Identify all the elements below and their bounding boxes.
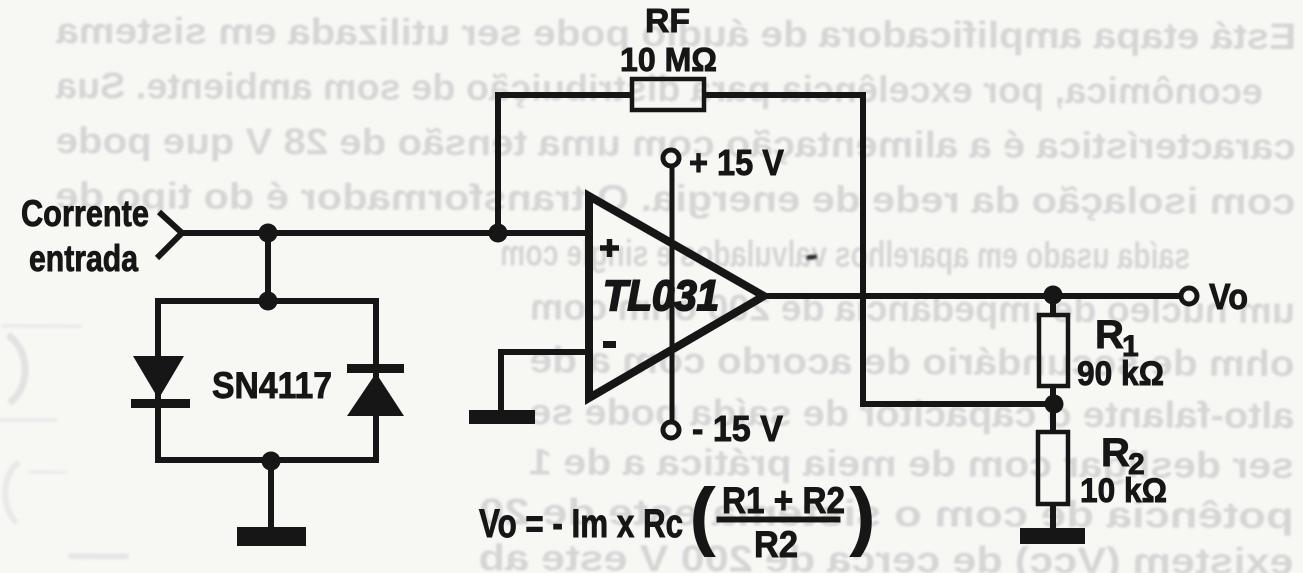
- wire inverting input: [501, 352, 589, 412]
- svg-text:(: (: [690, 473, 715, 557]
- svg-text:Vo = - Im x Rc: Vo = - Im x Rc: [479, 502, 683, 546]
- svg-text:ser desligar com de meia práti: ser desligar com de meia prática a de 1: [529, 441, 1294, 486]
- label R2: [1101, 431, 1145, 481]
- svg-text:RF: RF: [645, 2, 690, 39]
- wire R2 to ground: [1050, 504, 1056, 531]
- wire diode network to ground: [268, 461, 274, 530]
- label Corrente entrada: [21, 193, 149, 279]
- svg-text:alto-falante o capacitor de sa: alto-falante o capacitor de saída pode s…: [529, 391, 1294, 436]
- svg-text:SN4117: SN4117: [212, 365, 332, 406]
- label R1: [1095, 313, 1139, 363]
- junction output node: [1044, 286, 1063, 305]
- terminal Vo: [1181, 288, 1197, 304]
- svg-text:R1 + R2: R1 + R2: [722, 480, 845, 521]
- wire feedback left vertical: [495, 92, 501, 233]
- junction input node: [259, 224, 278, 243]
- svg-text:com isolação da rede de energi: com isolação da rede de energia. O trans…: [55, 175, 1295, 222]
- resistor R2: [1038, 432, 1068, 504]
- wire feedback top left: [495, 92, 634, 98]
- wire diode right branch: [373, 298, 379, 463]
- resistor R1: [1039, 315, 1068, 386]
- terminal -15V: [663, 422, 679, 438]
- wire input: [180, 230, 589, 236]
- svg-text:90 kΩ: 90 kΩ: [1077, 355, 1164, 393]
- op-amp + input symbol: [600, 239, 619, 257]
- svg-text:): ): [850, 473, 875, 557]
- svg-text:10 MΩ: 10 MΩ: [620, 41, 717, 78]
- svg-text:10 kΩ: 10 kΩ: [1080, 472, 1167, 510]
- wire R1 top: [1050, 295, 1056, 317]
- wire output: [761, 293, 1181, 299]
- op-amp - input symbol: [603, 341, 616, 348]
- wire R1 bottom: [1050, 386, 1056, 406]
- junction feedback tap: [489, 224, 508, 243]
- wire diode left branch: [155, 298, 161, 463]
- resistor RF: [632, 79, 704, 110]
- wire feedback top right: [702, 92, 866, 98]
- svg-text:- 15 V: - 15 V: [692, 408, 783, 449]
- svg-text:TL031: TL031: [603, 272, 719, 320]
- wire diode box bottom: [155, 457, 379, 463]
- wire feedback right vertical: [860, 92, 866, 407]
- terminal +15V: [663, 150, 679, 166]
- svg-text:R: R: [1101, 431, 1130, 475]
- power rail through op-amp: [670, 164, 675, 424]
- formula Vo = -Im x Rc ((R1+R2)/R2): [479, 473, 875, 565]
- svg-text:Vo: Vo: [1209, 276, 1248, 317]
- op-amp U1: [589, 196, 764, 398]
- ground GND3: [1020, 528, 1085, 544]
- svg-text:saída usado em aparelhos valvu: saída usado em aparelhos valvulados e si…: [500, 232, 1190, 276]
- input arrow: [157, 212, 182, 258]
- svg-text:R2: R2: [754, 524, 798, 565]
- diode D1 left: [131, 356, 190, 408]
- wire R2 top: [1050, 404, 1056, 434]
- wire input to diode network: [265, 233, 271, 301]
- ground GND1: [237, 527, 306, 546]
- junction diode top: [259, 292, 278, 311]
- svg-text:Corrente: Corrente: [21, 193, 149, 234]
- wire diode box top: [155, 298, 379, 304]
- junction diode bottom: [262, 452, 281, 471]
- ground GND2: [469, 410, 535, 424]
- diode D2 right: [347, 364, 404, 416]
- wire feedback bottom to divider: [860, 401, 1056, 407]
- junction divider node: [1045, 395, 1064, 414]
- svg-text:R: R: [1095, 313, 1124, 357]
- svg-text:+ 15 V: + 15 V: [689, 142, 784, 183]
- svg-text:entrada: entrada: [29, 238, 138, 279]
